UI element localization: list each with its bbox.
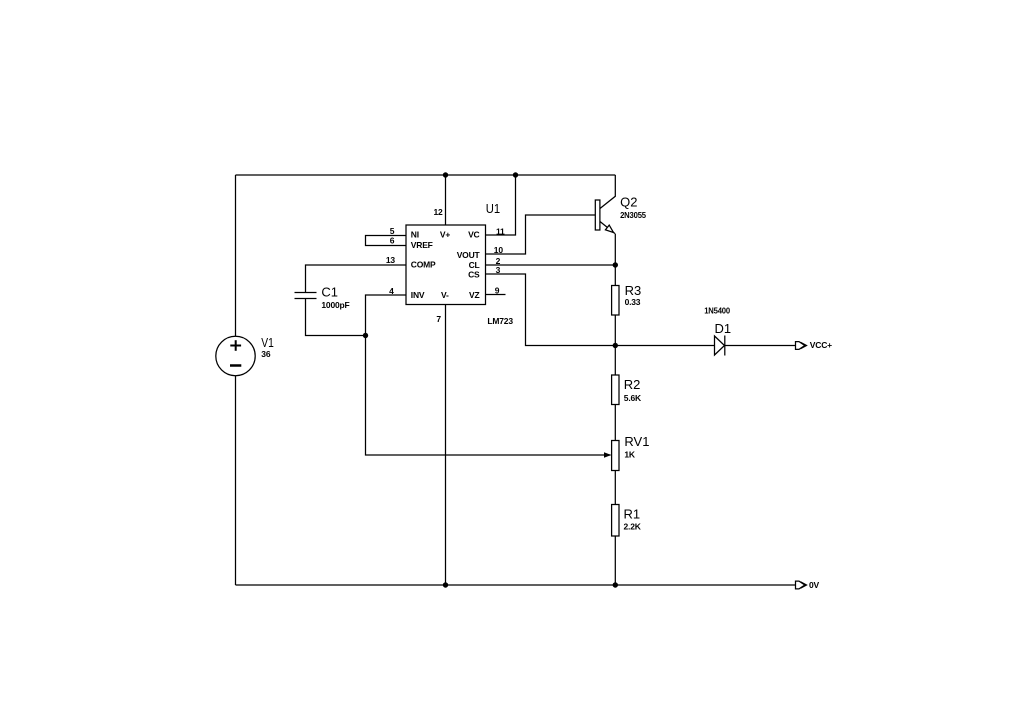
svg-text:5: 5 — [390, 226, 395, 236]
svg-text:VC: VC — [468, 230, 479, 240]
svg-text:1000pF: 1000pF — [321, 300, 349, 310]
svg-text:INV: INV — [411, 290, 425, 300]
svg-text:U1: U1 — [486, 201, 500, 216]
svg-text:C1: C1 — [321, 284, 338, 299]
svg-text:0.33: 0.33 — [625, 297, 641, 307]
svg-text:D1: D1 — [715, 321, 732, 336]
svg-text:R2: R2 — [624, 377, 641, 392]
svg-text:RV1: RV1 — [624, 434, 649, 449]
svg-text:Q2: Q2 — [620, 195, 637, 210]
svg-text:36: 36 — [261, 349, 271, 359]
svg-text:V-: V- — [441, 290, 449, 300]
svg-text:3: 3 — [496, 265, 501, 275]
svg-text:0V: 0V — [809, 580, 820, 590]
svg-text:4: 4 — [389, 286, 394, 296]
svg-text:1K: 1K — [624, 450, 636, 460]
svg-text:R1: R1 — [624, 507, 641, 522]
svg-text:1N5400: 1N5400 — [704, 305, 730, 315]
svg-text:11: 11 — [496, 227, 505, 237]
svg-text:V+: V+ — [440, 230, 450, 240]
svg-text:VREF: VREF — [411, 240, 433, 250]
svg-text:COMP: COMP — [411, 260, 436, 270]
svg-text:10: 10 — [494, 245, 504, 255]
svg-text:VOUT: VOUT — [457, 250, 481, 260]
svg-text:13: 13 — [386, 255, 396, 265]
svg-text:VZ: VZ — [469, 290, 479, 300]
svg-text:VCC+: VCC+ — [810, 340, 832, 350]
svg-text:R3: R3 — [625, 283, 642, 298]
svg-text:LM723: LM723 — [487, 316, 513, 326]
svg-text:6: 6 — [390, 236, 395, 246]
svg-text:12: 12 — [433, 207, 443, 217]
svg-text:2.2K: 2.2K — [624, 522, 642, 532]
svg-text:V1: V1 — [261, 335, 274, 350]
svg-text:CL: CL — [469, 260, 480, 270]
svg-text:2N3055: 2N3055 — [620, 210, 646, 220]
svg-text:7: 7 — [436, 314, 441, 324]
svg-text:5.6K: 5.6K — [624, 393, 642, 403]
svg-text:CS: CS — [468, 270, 480, 280]
svg-text:9: 9 — [495, 286, 500, 296]
svg-text:NI: NI — [411, 230, 419, 240]
